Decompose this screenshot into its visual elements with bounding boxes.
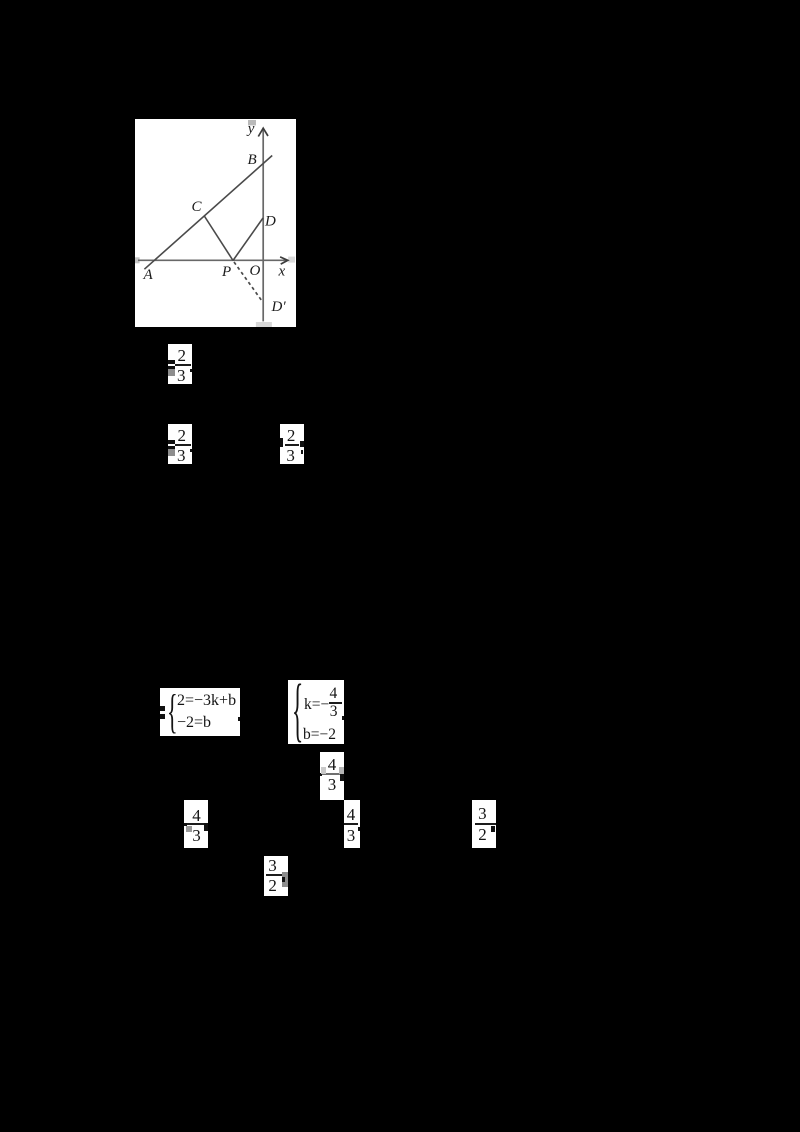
gray scan artifact right of x-arrow: [288, 257, 295, 263]
svg-text:B: B: [248, 152, 257, 168]
y-axis: [262, 129, 264, 321]
figure box: coordinate plane with line AB, points C,P,D,D': [135, 119, 296, 327]
y-axis arrowhead: [258, 128, 268, 136]
svg-text:C: C: [192, 199, 203, 215]
x-axis: [138, 259, 287, 261]
eq image: fraction 2/3 (row 2 left): [168, 424, 192, 464]
eq image: system {2=-3k+b ; -2=b}: [160, 688, 240, 736]
x-axis arrowhead: [280, 257, 288, 264]
svg-text:D′: D′: [271, 299, 287, 315]
eq image: fraction 2/3 (row 1): [168, 344, 192, 384]
gray scan artifact left on x-axis: [135, 257, 140, 263]
eq image: fraction 2/3 (row 2 right): [280, 424, 304, 464]
line AB: [144, 156, 272, 270]
svg-text:P: P: [221, 264, 231, 280]
segment PD: [233, 218, 263, 261]
gray scan artifact top: [248, 120, 256, 125]
eq image: fraction 4/3 (alone, under system 2): [320, 752, 344, 800]
svg-text:A: A: [143, 267, 154, 283]
eq image: fraction 3/2 (row 4): [264, 856, 288, 896]
gray scan artifact bottom: [256, 322, 272, 327]
svg-text:O: O: [250, 263, 261, 279]
labels: [143, 121, 287, 315]
eq image: fraction 4/3 (row 3 middle): [344, 800, 360, 848]
eq image: fraction 4/3 (row 3 left): [184, 800, 208, 848]
svg-text:x: x: [278, 264, 286, 280]
eq image: system {k=-4/3 ; b=-2}: [288, 680, 344, 744]
dashed segment PD': [234, 262, 262, 301]
segment CP: [204, 216, 233, 261]
svg-text:y: y: [246, 121, 255, 137]
svg-text:D: D: [264, 214, 276, 230]
eq image: fraction 3/2 (row 3 right): [472, 800, 496, 848]
